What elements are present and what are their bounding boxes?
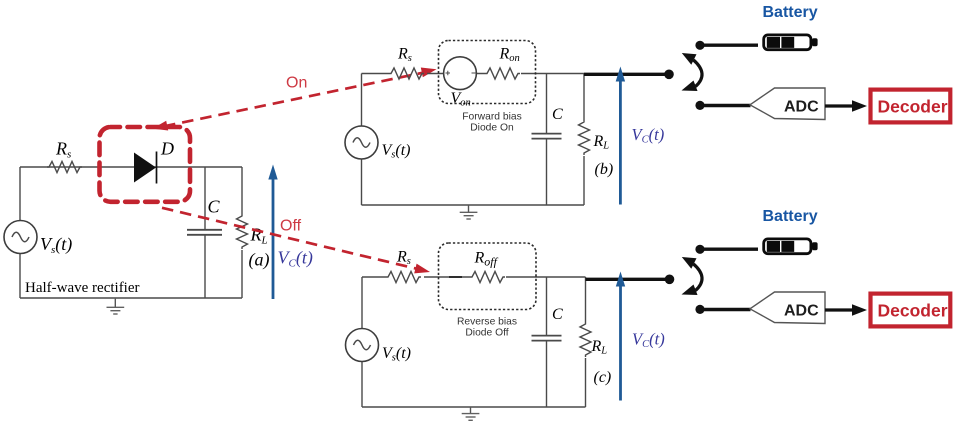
wire: bottom rail of (a) xyxy=(20,297,242,299)
svg-text:RL: RL xyxy=(593,133,610,152)
svg-text:RL: RL xyxy=(250,225,268,247)
svg-text:Vs(t): Vs(t) xyxy=(382,142,411,161)
wire: bottom rail of (c) xyxy=(362,406,586,408)
arrow ADC to Decoder (bottom) xyxy=(825,304,867,316)
wire: capacitor branch of (b) xyxy=(546,74,548,206)
wire stub before Roff (c) xyxy=(449,276,462,278)
svg-text:(a): (a) xyxy=(249,250,270,271)
resistor Rs (c) xyxy=(386,272,421,283)
battery icon (top) xyxy=(764,35,818,50)
capacitor C (a) xyxy=(187,230,222,235)
svg-text:Forward bias: Forward bias xyxy=(462,112,522,123)
svg-text:C: C xyxy=(552,306,563,323)
arrow ADC to Decoder (top) xyxy=(825,100,867,112)
diode D (a) xyxy=(134,152,157,184)
wire: load branch of (b) xyxy=(583,74,585,206)
svg-text:VC(t): VC(t) xyxy=(632,125,665,146)
wire: bottom rail of (b) xyxy=(362,204,585,206)
wire: top rail of (b) xyxy=(362,73,585,75)
switch curved arrow (bottom) xyxy=(682,257,703,295)
svg-text:Reverse bias: Reverse bias xyxy=(457,317,517,328)
switch pole dot (top group, ADC side) xyxy=(695,101,704,110)
svg-text:Half-wave rectifier: Half-wave rectifier xyxy=(25,280,140,296)
svg-text:Rs: Rs xyxy=(397,46,412,65)
dashed annotation line On xyxy=(153,67,437,130)
voltage arrow VC (b) xyxy=(616,67,625,205)
svg-text:Vs(t): Vs(t) xyxy=(382,345,411,364)
dashed annotation line Off xyxy=(162,208,430,274)
wire: load branch of (a) xyxy=(241,167,243,298)
dotted box forward-bias model (b) xyxy=(439,41,536,104)
svg-text:Vs(t): Vs(t) xyxy=(40,234,72,256)
svg-text:Battery: Battery xyxy=(763,208,818,225)
ground symbol (a) xyxy=(107,299,125,314)
switch pole dot (bottom group, ADC side) xyxy=(695,305,704,314)
switch curved arrow (top) xyxy=(682,53,703,91)
svg-text:VC(t): VC(t) xyxy=(632,330,665,351)
wire: left branch of (a) xyxy=(19,167,21,298)
svg-text:ADC: ADC xyxy=(784,302,819,319)
resistor Rs (a) xyxy=(47,162,82,173)
voltage arrow VC (a) xyxy=(268,165,277,300)
ground symbol (b) xyxy=(460,205,478,219)
svg-text:C: C xyxy=(208,197,221,217)
svg-text:Diode On: Diode On xyxy=(470,123,514,134)
battery icon (bottom) xyxy=(764,239,818,254)
wire: capacitor branch of (c) xyxy=(546,277,548,407)
node dot output (c) xyxy=(665,275,675,285)
svg-text:(b): (b) xyxy=(595,161,614,178)
source Von (b) xyxy=(444,57,477,90)
Decoder block (top) xyxy=(871,90,951,123)
wire: switch to ADC (bottom) xyxy=(704,308,751,311)
wire: load branch of (c) xyxy=(585,277,587,407)
wire: switch to battery (bottom) xyxy=(704,247,759,250)
dotted box reverse-bias model (c) xyxy=(439,243,537,310)
svg-text:Decoder: Decoder xyxy=(878,301,948,321)
Decoder block (bottom) xyxy=(871,294,951,327)
wire: top rail of (c) xyxy=(362,276,586,278)
voltage arrow VC (c) xyxy=(616,272,625,401)
svg-text:ADC: ADC xyxy=(784,98,819,115)
svg-text:C: C xyxy=(552,106,563,123)
capacitor C (c) xyxy=(532,336,562,341)
svg-text:Von: Von xyxy=(451,90,471,109)
svg-text:Battery: Battery xyxy=(763,4,818,21)
source Vs (c) xyxy=(346,329,379,362)
resistor RL (b) xyxy=(579,120,590,155)
capacitor C (b) xyxy=(532,134,562,139)
switch pole dot (bottom group, battery side) xyxy=(695,245,704,254)
wire: switch to battery (top) xyxy=(704,44,759,47)
wire: capacitor branch of (a) xyxy=(204,167,206,298)
highlight box around diode xyxy=(100,127,191,202)
resistor Roff (c) xyxy=(470,272,505,283)
svg-text:D: D xyxy=(160,139,174,159)
ground symbol (c) xyxy=(462,407,480,420)
resistor RL (a) xyxy=(237,214,248,249)
svg-text:VC(t): VC(t) xyxy=(278,248,313,270)
svg-text:Roff: Roff xyxy=(474,250,499,269)
resistor RL (c) xyxy=(580,322,591,357)
svg-text:Rs: Rs xyxy=(55,139,71,161)
switch pole dot (top group, battery side) xyxy=(695,41,704,50)
svg-text:RL: RL xyxy=(591,338,608,357)
svg-text:Diode Off: Diode Off xyxy=(465,328,508,339)
wire: left branch of (b) xyxy=(361,74,363,206)
svg-text:Decoder: Decoder xyxy=(878,97,948,117)
wire: left branch of (c) xyxy=(361,277,363,407)
svg-text:Ron: Ron xyxy=(499,46,520,65)
svg-text:(c): (c) xyxy=(594,369,612,386)
ADC block (top) xyxy=(750,88,825,120)
source Vs (a) xyxy=(4,221,37,254)
ADC block (bottom) xyxy=(750,292,825,324)
svg-text:Off: Off xyxy=(280,218,302,235)
thick output wire (b) xyxy=(584,73,665,76)
resistor Rs (b) xyxy=(389,68,424,79)
svg-text:Rs: Rs xyxy=(396,249,411,268)
node dot output (b) xyxy=(664,70,674,80)
source Vs (b) xyxy=(345,126,378,159)
wire: switch to ADC (top) xyxy=(704,104,751,107)
wire: top rail of (a) xyxy=(20,166,242,168)
thick output wire (c) xyxy=(586,278,666,281)
resistor Ron (b) xyxy=(485,68,520,79)
svg-text:On: On xyxy=(286,75,307,92)
